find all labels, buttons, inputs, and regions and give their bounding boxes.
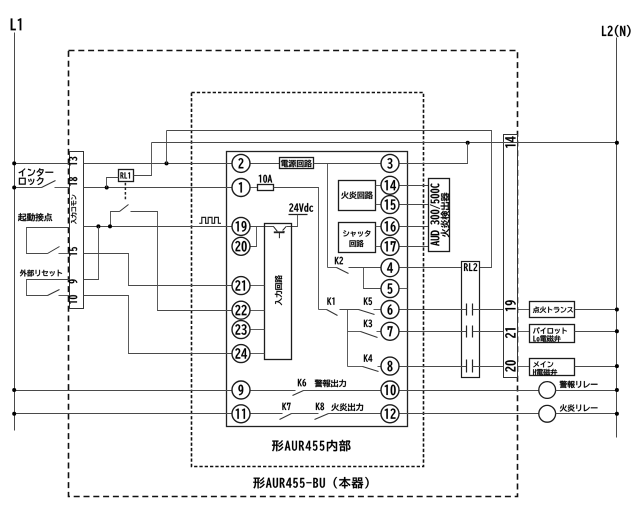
outer dashed enclosure 形AUR455-BU [69,51,518,497]
label 警報リレー [560,381,598,389]
terminal circle 22 [232,301,250,319]
terminal 18 label [69,177,78,186]
label 形AUR455-BU（本器） [253,477,368,489]
wire circle 1 to resistor [251,187,258,189]
terminal 15 label [69,247,77,256]
wire circle 8 to RL2 contact [400,366,467,368]
wire K6 to circle 10 [304,390,382,392]
wire circle 5 stub [400,288,408,290]
terminal 21 label [505,328,515,338]
terminal circle 16 [381,217,399,235]
wire 24Vdc to transistor emitter [287,215,298,227]
wire circle 3 up to line 2 [400,143,468,164]
wire junction up to top line 1 [166,131,168,164]
label K7 [282,403,290,410]
block AUD300/500C 火炎検出器 [429,179,450,252]
wire terminal 20 to main valve [518,366,530,368]
switch RL1 contact [111,212,120,227]
wire RL2 to terminal 20 [473,366,504,368]
wire shutter box to circle 17 [376,246,382,248]
wire start-contact loop top to COM terminal [27,228,70,254]
wire reset loop top to terminal 9 [27,280,70,296]
wire circle 7 to RL2 contact [400,331,467,333]
wire start-contact to terminal 15 [59,253,70,255]
terminal circle 2 [232,154,250,172]
contact K5 blade [359,310,375,315]
switch 起動接点 blade [48,247,60,254]
wire circle 22 to input box [251,310,265,312]
power rail 24Vdc bar [289,214,308,216]
terminal circle 24 [232,345,250,363]
label 警報出力 [315,379,346,387]
wire circle 6 to RL2 contact [400,309,467,311]
inner solid box AUR455 circuit [227,152,408,427]
wire resistor to K1 drop [274,188,319,310]
wire ladder to K4 [348,366,363,368]
wire flame relay to L2 [556,413,617,415]
label 形AUR455内部 [272,440,351,452]
right terminal strip [504,135,518,378]
wire RL2 to terminal 21 [473,331,504,333]
wire terminal 15 to circle 21 [84,254,233,286]
terminal circle 19 [232,217,250,235]
relay coil 警報リレー circle [539,382,556,399]
wire shutter box to circle 16 [376,226,382,228]
wire K8 to circle 12 [329,413,382,415]
wire K2 to circle 4 [349,267,382,269]
wire interlock switch to terminal 18 [55,187,70,189]
switch 外部リセット blade [48,290,60,296]
wire ladder to K3 [348,331,361,333]
wire ladder K1 down to K3 K4 [347,310,349,367]
wire circle 10 to alarm relay [400,390,539,392]
wire flame box to circle 14 [376,185,382,187]
terminal circle 11 [232,405,250,423]
wire terminal 19 to ignition transformer [518,309,530,311]
wire RL1 left lead [107,178,119,188]
label 火炎リレー [560,404,598,411]
terminal circle 12 [381,405,399,423]
terminal circle 21 [232,277,250,295]
transistor Q1 [273,226,277,231]
contact K6 blade [293,391,304,396]
wire circle 9 to contact K6 [251,390,296,392]
wire L1 to interlock switch [15,187,42,189]
contact K1 [319,309,327,311]
wire circle 2 to power supply box [251,163,280,165]
terminal circle 4 [381,259,399,277]
label 外部リセット [20,270,62,277]
wire top line 1 to RL2 coil [167,131,492,268]
contact K4 blade [363,367,379,372]
RL2 contact bars row 20 [466,360,468,373]
wire top line 2 to L2 via terminal 14 [152,142,617,144]
terminal 19 label [505,300,516,311]
wire circle 20 junction up to 19 row [251,227,257,247]
wire flame box to circle 15 [376,204,382,206]
terminal 13 label [69,157,77,166]
contact K3 blade [361,332,378,338]
wire circle 24 to input box [251,353,265,355]
terminal 入力コモン label [71,195,77,224]
terminal circle 7 [381,322,399,340]
load パイロットLo電磁弁 [530,325,575,343]
block 入力回路 [265,224,292,360]
terminal circle 6 [381,301,399,319]
wire RL2 to terminal 19 [473,309,504,311]
label 起動接点 [18,213,52,221]
wire circle 11 to contact K7 [251,413,283,415]
wire K4 to circle 8 [378,366,382,368]
RL2 contact bars row 21 [466,326,468,338]
switch インターロック blade [42,181,56,188]
wire ignition transformer to L2 [575,309,617,311]
wire branch to circle 5 [364,268,382,289]
wire circle 17 to AUD detector [400,246,429,248]
terminal circle 17 [381,237,399,255]
wire circle 15 to AUD detector [400,204,429,206]
wire K3 to circle 7 [377,331,382,333]
node L2(N) label [602,25,631,37]
label K6 [298,379,306,387]
inner dotted enclosure AUR455 internal [192,93,424,467]
contact K7 blade [280,414,292,420]
label インターロック [19,168,54,176]
wire L1 to circle 9 [15,390,233,392]
terminal circle 5 [381,280,399,298]
terminal circle 20 [232,237,250,255]
wire terminal 18 to circle 1 with RL1 junction [84,187,233,189]
pulse signal symbol [199,217,221,223]
wire RL1 right lead to top line 2 [134,143,152,176]
wire circle 16 to AUD detector [400,226,429,228]
RL2 contact bars row 19 [466,304,468,316]
terminal 10 label [69,295,78,304]
wire COM terminal to circle 19 [84,226,233,228]
wire circle 4 to RL2 coil [400,267,462,269]
terminal circle 23 [232,321,250,339]
wire L2(N) bus vertical [616,38,618,438]
wire circle 12 to flame relay [400,413,539,415]
load 点火トランス [530,302,575,318]
wire circle 14 to AUD detector [400,185,429,187]
wire COM down to terminal 9 [84,227,99,280]
wire circle 23 to input box [251,329,265,331]
terminal circle 14 [381,176,399,194]
wire L1 bus vertical [14,33,16,431]
wire reset switch to terminal 10 [59,295,70,297]
wire terminal 21 to pilot valve [518,331,530,333]
relay RL2 coil box [462,262,480,378]
left terminal strip [70,152,84,309]
block シャッタ回路 [339,223,376,253]
terminal 20 label [505,360,516,371]
contact K2 [328,267,337,269]
relay coil RL1 box [119,170,134,182]
wire circle 21 to input box [251,285,265,287]
wire K5 to circle 6 [374,309,382,311]
load メインH電磁弁 [530,359,575,376]
terminal circle 10 [381,381,399,399]
terminal circle 3 [381,154,399,172]
contact K8 blade [315,414,329,420]
terminal circle 15 [381,196,399,214]
terminal circle 1 [232,179,250,197]
terminal circle 8 [381,357,399,375]
wire alarm relay to L2 [556,390,617,392]
relay coil 火炎リレー circle [539,405,556,422]
label 24Vdc [289,203,313,212]
terminal circle 9 [232,381,250,399]
wire K7 to K8 [292,413,319,415]
wire K1 to K5 [340,309,359,311]
wire L1 to circle 11 [15,413,233,415]
wire main valve to L2 [575,366,617,368]
wire K2 drop from power rail [327,164,329,268]
node L1 label [11,18,22,30]
label K8 [316,403,324,411]
label 火炎出力 [331,403,363,411]
resistor 10A [258,185,274,191]
wire L1 to terminal 13 [15,163,70,165]
wire circle 19 into input box [251,226,274,228]
RL1 actuation dashed link [124,183,126,201]
wire terminal 10 to circle 24 [84,296,233,354]
wire RL1 contact to circle 22 [131,212,233,311]
block 火炎回路 [339,181,376,211]
terminal 14 label [505,136,515,147]
wire power box to circle 3 [314,163,382,165]
terminal 9 label [69,279,78,283]
block 電源回路 [280,158,314,169]
wire pilot valve to L2 [575,331,617,333]
wire terminal 13 to circle 2 with junction [84,163,233,165]
